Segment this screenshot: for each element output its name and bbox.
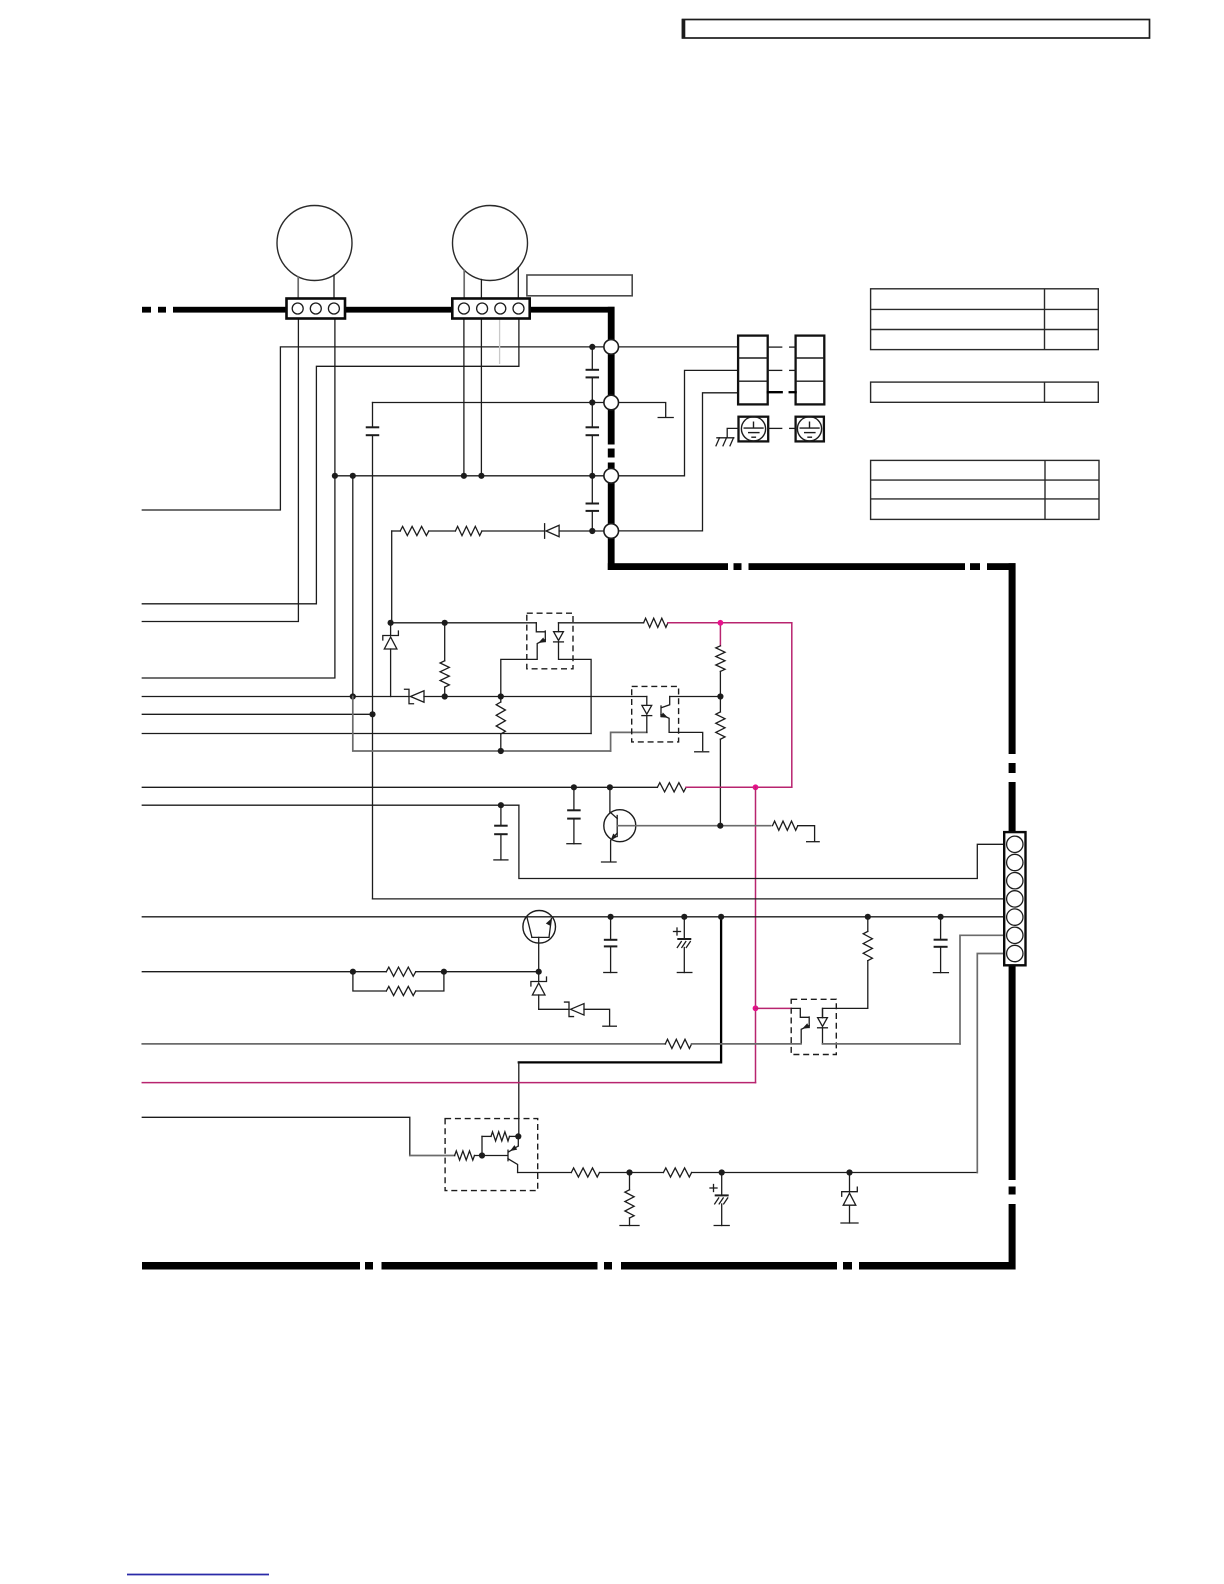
diode D3 xyxy=(544,524,546,539)
motor M2 xyxy=(453,206,528,281)
capacitor C5 electrolytic xyxy=(681,914,687,920)
blue footer line xyxy=(127,1574,269,1576)
transistor PC1-Q internals xyxy=(544,631,546,642)
wire y898.9 net (CN3 pin4) xyxy=(373,898,1005,900)
wire gray x960 to CN3 pin6 xyxy=(960,935,1004,1044)
wire box TB-L row2 to terminal-3 xyxy=(611,370,738,475)
resistor R8 on y787.3 xyxy=(657,783,686,792)
wire y697 net to left edge xyxy=(142,696,409,698)
wire pcb-border right-upper vertical xyxy=(608,307,615,445)
resistor R7 vertical x500.8 xyxy=(500,697,502,703)
ground chassis symbol left of E-L xyxy=(727,428,738,437)
transistor Q2 on rail xyxy=(523,911,556,944)
connector CN1 xyxy=(287,299,346,319)
resistor R5 vertical xyxy=(716,646,725,672)
wire y531 net with R1 R2 D3 xyxy=(392,530,401,532)
wire terminal-2 chassis stub xyxy=(611,403,666,418)
terminal block TB-L (3 cells) xyxy=(738,336,768,405)
transistor Q1 xyxy=(604,810,636,842)
resistor R4 on y622.8 xyxy=(644,618,668,627)
capacitor C6 xyxy=(938,914,944,920)
resistor R10 parallel pair upper xyxy=(386,967,415,976)
table C (3 rows, 2 cols) xyxy=(871,460,1099,519)
wire pcb-border right vertical xyxy=(1009,563,1016,754)
earth terminal E-R xyxy=(796,417,824,442)
wire terminal-3 net horizontal xyxy=(335,475,611,477)
resistor R17 on y1172.5 xyxy=(663,1168,691,1177)
wire y622.8 net right segment xyxy=(559,622,644,624)
wire dashed links TB-L to TB-R xyxy=(768,346,782,348)
wire magenta y622.8 segment xyxy=(668,622,792,624)
zener ZD3 below y1172.5 xyxy=(849,1173,851,1192)
wire magenta to PC3 collector xyxy=(756,1007,792,1009)
wire y1172.5 net xyxy=(518,1172,572,1174)
terminal circles on upper border xyxy=(604,340,619,355)
wire x518.8 drop to PC4 xyxy=(518,1062,520,1135)
optocoupler PC2 box xyxy=(632,686,679,742)
wire terminal-1 to box TB-L xyxy=(611,346,738,348)
ground stub after R9 xyxy=(798,826,815,841)
optocoupler PC1 box xyxy=(527,613,573,669)
ground stub PC2 emitter xyxy=(695,751,709,753)
resistor R13 on y1043.9 xyxy=(665,1039,691,1048)
optocoupler PC4 box xyxy=(445,1119,538,1191)
resistor R12 x867.8 xyxy=(865,914,871,920)
wire pcb-border middle horizontal xyxy=(608,563,728,570)
wire connector CN1 pin1 net xyxy=(142,319,298,622)
transistor PC3-Q internals xyxy=(808,1017,810,1028)
wire y1117.3 net xyxy=(142,1117,410,1155)
terminal block TB-R (3 cells) xyxy=(796,336,825,405)
wire y1043.9 gray right segment xyxy=(823,1043,961,1045)
ground stub Q1 emitter xyxy=(602,861,617,863)
capacitor C4 xyxy=(608,914,614,920)
wire to D4 xyxy=(539,1008,569,1010)
wire motor M1 leads xyxy=(297,277,299,299)
wire y916.8 rail (CN3 pin5) xyxy=(142,916,1004,918)
ground stub after D4 xyxy=(584,1009,610,1025)
resistor R9 on base wire xyxy=(773,821,798,830)
resistor R18 below y1172.5 xyxy=(629,1173,631,1190)
wire x391.7 drop xyxy=(391,531,393,623)
resistor R3 vertical x444.7 xyxy=(444,623,446,661)
wire magenta stub to R5 xyxy=(719,623,721,646)
wire y622.8 net left segment xyxy=(391,622,537,624)
label box near motor M2 xyxy=(527,275,632,296)
earth terminal E-L xyxy=(739,417,769,442)
wire capacitor chain x592.3 xyxy=(591,347,593,370)
wire connector CN1 pin3 net xyxy=(142,319,335,679)
motor M1 xyxy=(277,206,352,281)
resistor R14 in PC4 xyxy=(455,1151,475,1160)
diode D4 xyxy=(565,1002,574,1017)
title box (empty label frame) xyxy=(683,20,1150,39)
capacitor C2 xyxy=(573,787,575,810)
wire x518.9 drop to y878.5 xyxy=(519,805,1004,878)
wire terminal-1 net: left edge to border terminal xyxy=(142,347,611,510)
wire terminal-2 net horizontal xyxy=(373,402,612,404)
LED PC3-D internals xyxy=(822,1008,824,1017)
diode D1 on y697 xyxy=(405,689,414,704)
wire magenta right loop vertical xyxy=(791,623,793,788)
wire y787.3 net xyxy=(142,786,657,788)
optocoupler PC3 box xyxy=(791,999,836,1054)
wire gray x977.3 to CN3 pin7 xyxy=(977,954,1004,1173)
wire y971.7 net xyxy=(142,971,386,973)
zener ZD1 xyxy=(390,623,392,636)
wire connector CN2 pin2 drop xyxy=(480,319,482,476)
wire gray net x352.8 to PC2 cathode xyxy=(353,697,611,752)
capacitor C1b xyxy=(586,426,600,428)
capacitor C3 xyxy=(500,805,502,826)
resistor R16 on y1172.5 xyxy=(571,1168,599,1177)
wire y696.5 right segment xyxy=(670,696,721,698)
wire y714 branch to left edge xyxy=(142,713,372,715)
transistor PC4-Q internals xyxy=(507,1150,509,1161)
wire y805.2 net xyxy=(142,804,519,806)
connector CN2 xyxy=(452,299,529,319)
capacitor C0 on x372 drop xyxy=(372,403,374,428)
connector CN3 (7-pin) xyxy=(1004,832,1025,965)
wire connector CN2 pin3 stub (light) xyxy=(499,319,501,365)
wire connector CN2 pin4 net xyxy=(142,319,519,604)
resistor R11 parallel pair lower xyxy=(353,972,386,991)
resistor R2 xyxy=(455,526,482,535)
wire gray into PC4 xyxy=(410,1155,455,1157)
capacitor C7 electrolytic below y1172.5 xyxy=(721,1173,723,1196)
table A (3 rows, 2 cols) xyxy=(871,289,1099,350)
wire pcb-border bottom dash-dot xyxy=(142,1262,360,1270)
wire pcb-border top dash-dot segment xyxy=(142,307,151,313)
wire connector CN2 pin1 drop xyxy=(463,319,465,476)
resistor R1 xyxy=(400,526,429,535)
wire motor M2 leads xyxy=(463,270,465,298)
wire x352.8 drop from terminal-3 wire xyxy=(352,476,354,697)
wire y733.5 opto PC1 cathode net xyxy=(142,733,591,735)
wire magenta mid vertical xyxy=(755,787,757,1082)
wire magenta y787.3 segment xyxy=(686,786,792,788)
wire dashed link E-L to E-R xyxy=(768,427,782,429)
wire y1043.9 gray net xyxy=(142,1043,665,1045)
table B (1 row, 2 cols) xyxy=(871,382,1099,402)
transistor PC2-Q internals xyxy=(660,706,662,717)
wire magenta y1082.6 net xyxy=(142,1082,755,1084)
resistor R15 in PC4 xyxy=(481,1136,483,1155)
LED PC2-D internals xyxy=(646,697,648,706)
wire Q1 base gray xyxy=(617,825,771,827)
wire Q2 collector drop xyxy=(538,937,540,971)
wire box TB-L row3 to terminal-4 xyxy=(611,393,738,531)
zener ZD2 below Q2 xyxy=(538,972,540,982)
resistor R6 vertical xyxy=(719,697,721,712)
LED PC1-D internals xyxy=(558,623,560,632)
capacitor C1a xyxy=(586,369,600,371)
wire bold net from rail xyxy=(519,917,721,1063)
capacitor C1c xyxy=(586,503,600,505)
